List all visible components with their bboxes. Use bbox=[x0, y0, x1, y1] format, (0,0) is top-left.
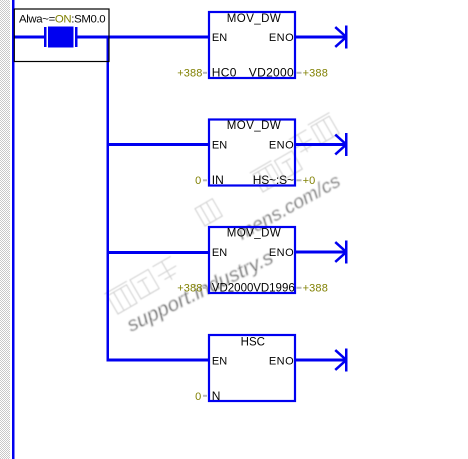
svg-text:EN: EN bbox=[212, 140, 227, 152]
svg-text:VD2000: VD2000 bbox=[249, 66, 294, 80]
svg-text:EN: EN bbox=[212, 356, 227, 368]
svg-text:0: 0 bbox=[195, 175, 201, 187]
svg-text:EN: EN bbox=[212, 32, 227, 44]
svg-text:ENO: ENO bbox=[269, 356, 294, 368]
svg-text:MOV_DW: MOV_DW bbox=[227, 120, 281, 132]
svg-text:MOV_DW: MOV_DW bbox=[227, 13, 281, 25]
svg-text:ENO: ENO bbox=[269, 140, 294, 152]
svg-text:ENO: ENO bbox=[269, 32, 294, 44]
svg-text:+388: +388 bbox=[303, 283, 328, 295]
svg-text:Alwa~=ON:SM0.0: Alwa~=ON:SM0.0 bbox=[19, 14, 105, 26]
svg-text:VD1996: VD1996 bbox=[253, 283, 295, 295]
svg-text:0: 0 bbox=[195, 391, 201, 403]
svg-text:N: N bbox=[212, 389, 221, 403]
svg-text:HC0: HC0 bbox=[212, 66, 237, 80]
svg-text:VD2000: VD2000 bbox=[212, 283, 254, 295]
svg-text:IN: IN bbox=[212, 173, 224, 187]
svg-text:+388: +388 bbox=[177, 68, 202, 80]
svg-text:EN: EN bbox=[212, 247, 227, 259]
svg-text:HS~:S~: HS~:S~ bbox=[253, 173, 294, 187]
svg-text:+388: +388 bbox=[303, 68, 328, 80]
svg-text:ENO: ENO bbox=[269, 247, 294, 259]
svg-text:+0: +0 bbox=[303, 175, 316, 187]
svg-text:MOV_DW: MOV_DW bbox=[227, 228, 281, 240]
svg-text:+388: +388 bbox=[177, 283, 202, 295]
svg-text:HSC: HSC bbox=[241, 337, 265, 349]
